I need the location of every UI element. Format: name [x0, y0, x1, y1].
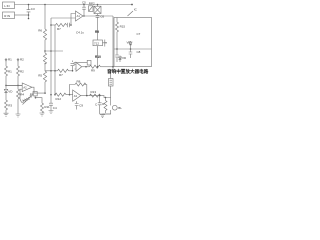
- resistor Rin2: [55, 93, 66, 101]
- svg-text:R4: R4: [20, 93, 24, 97]
- resistor R11: [41, 103, 51, 113]
- svg-text:C3: C3: [31, 7, 35, 11]
- diode VD1: [4, 85, 13, 98]
- wire vertical bus x55: [54, 25, 56, 95]
- svg-text:R3: R3: [8, 104, 12, 108]
- svg-text:R13: R13: [91, 90, 97, 94]
- cap C4b: [71, 61, 75, 71]
- wire jack down: [110, 86, 112, 105]
- svg-text:R2: R2: [20, 69, 24, 73]
- node IC2 in b: [54, 94, 56, 96]
- wire top rail: [15, 4, 133, 6]
- node rail x51: [50, 50, 52, 52]
- svg-text:VD: VD: [122, 56, 127, 60]
- svg-text:R1: R1: [8, 58, 12, 62]
- wire vertical bus x51: [50, 18, 52, 95]
- diode in box: [127, 40, 133, 49]
- wire to U4: [66, 94, 73, 96]
- ground G5: [100, 114, 105, 118]
- box rail y49: [114, 48, 152, 50]
- rail y85.4: [6, 84, 22, 86]
- node U4 out: [86, 95, 88, 97]
- op-amp U4: [73, 90, 81, 101]
- arrow in2: [17, 58, 24, 62]
- node fb x51: [50, 24, 52, 26]
- svg-text:A2: A2: [23, 85, 27, 89]
- capacitor C6: [96, 14, 105, 19]
- cap under U4: [75, 101, 84, 109]
- svg-text:R9: R9: [95, 30, 99, 34]
- node out x106.8: [105, 97, 107, 99]
- resistor R7a: [56, 23, 67, 31]
- svg-text:R2: R2: [20, 58, 24, 62]
- svg-text:R15: R15: [120, 25, 126, 29]
- op-amp U1: [76, 11, 84, 21]
- cap C4c to ground: [49, 95, 57, 111]
- wire U1 output: [83, 15, 113, 17]
- node at C3 top: [28, 4, 30, 6]
- cap box C: [87, 60, 91, 65]
- svg-text:A1: A1: [77, 14, 81, 18]
- svg-text:RP2: RP2: [89, 1, 95, 5]
- node rail end: [131, 4, 133, 6]
- node right: [112, 66, 114, 68]
- wire to node C: [44, 82, 46, 93]
- box below U3: [33, 92, 42, 104]
- wire K1 down: [97, 46, 99, 67]
- pot RP: [20, 92, 34, 104]
- node U1 out cap: [83, 15, 84, 16]
- svg-text:A3: A3: [74, 94, 78, 98]
- resistor R5: [38, 51, 46, 78]
- wire R6 to node B: [44, 42, 46, 51]
- switch box S1: [94, 5, 101, 14]
- resistor R14: [102, 98, 107, 114]
- svg-text:C6: C6: [100, 15, 104, 19]
- svg-text:R7: R7: [59, 73, 63, 77]
- wire R5 down: [44, 63, 46, 71]
- svg-text:C8: C8: [137, 50, 141, 54]
- wire U4 out: [81, 96, 111, 98]
- wire mid rail y51: [45, 50, 63, 52]
- cap in box mid: [129, 49, 133, 58]
- svg-text:VD: VD: [8, 90, 13, 94]
- op-amp U3: [22, 83, 32, 92]
- resistor R21 in box: [116, 18, 126, 35]
- ground G2: [16, 114, 21, 117]
- arrow in1: [5, 58, 12, 62]
- wire U3 inputs: [6, 85, 22, 96]
- cap C10: [95, 96, 102, 111]
- node box rail2: [130, 48, 132, 50]
- resistor R1: [5, 61, 13, 78]
- node U2 out: [85, 66, 87, 68]
- node rail x51b: [50, 70, 52, 72]
- trimmer RP2 box: [89, 1, 95, 11]
- node at J2 wire: [28, 14, 30, 16]
- node col join: [97, 66, 99, 68]
- jack box: [109, 67, 114, 86]
- capacitor C5: [82, 1, 86, 16]
- svg-text:C: C: [95, 102, 98, 106]
- resistor R8 fb: [70, 79, 87, 96]
- node C: [44, 92, 46, 94]
- node fb2: [69, 94, 71, 96]
- svg-text:C5: C5: [82, 1, 86, 5]
- diode in box lower right: [119, 56, 127, 63]
- svg-text:IC: IC: [134, 8, 138, 12]
- node rail x18: [17, 85, 19, 87]
- node fb x71: [70, 24, 72, 26]
- node B: [44, 50, 46, 52]
- svg-text:R6: R6: [38, 29, 42, 33]
- input box J1: [3, 2, 15, 9]
- capacitor C3: [27, 5, 35, 19]
- svg-text:L IN: L IN: [4, 4, 9, 8]
- svg-text:R1: R1: [8, 69, 12, 73]
- bottom rail right: [100, 111, 111, 114]
- wire from J2: [15, 14, 29, 16]
- svg-text:C4: C4: [53, 106, 57, 110]
- wire U1 out down: [112, 16, 114, 67]
- node rail x6: [5, 85, 7, 87]
- op-amp U2: [76, 62, 82, 71]
- node IC2 in: [50, 94, 52, 96]
- svg-text:712: 712: [94, 41, 99, 45]
- big box amplifier module: [114, 18, 152, 67]
- resistor R9: [90, 65, 101, 72]
- svg-text:C4 1u: C4 1u: [76, 31, 84, 35]
- svg-text:音响中置放大器电路: 音响中置放大器电路: [107, 68, 149, 75]
- resistor R3: [5, 98, 13, 112]
- relay box K1: [93, 40, 103, 46]
- wire R1 to rail: [5, 78, 7, 85]
- node x72: [72, 70, 74, 72]
- svg-text:R5: R5: [38, 74, 42, 78]
- wire U2 upper fb: [74, 63, 87, 65]
- ground G1: [4, 112, 9, 116]
- rail y70.8: [45, 70, 58, 72]
- wire R4 down: [17, 101, 19, 114]
- node out x99.7: [99, 95, 101, 97]
- wire fb to upper input: [71, 14, 76, 26]
- svg-text:R10: R10: [95, 55, 101, 59]
- op-amp A feedback wire: [51, 24, 56, 26]
- wire to right node: [101, 66, 114, 68]
- resistor R5b: [43, 71, 46, 82]
- wire op-amp A lower input: [51, 17, 76, 19]
- capacitor C4a: [67, 23, 72, 27]
- connector bracket: [103, 40, 107, 47]
- svg-text:R IN: R IN: [4, 14, 10, 18]
- wire U3 output: [32, 87, 45, 93]
- svg-text:BL: BL: [118, 106, 122, 110]
- input box J2: [3, 12, 15, 19]
- svg-text:R12: R12: [56, 97, 62, 101]
- leader line: [128, 8, 138, 17]
- svg-text:R8: R8: [77, 79, 81, 83]
- resistor R7b: [58, 69, 69, 77]
- wire col down: [97, 19, 99, 40]
- ground G3: [40, 113, 45, 116]
- node box rail1: [116, 48, 118, 50]
- node top rail col: [97, 4, 99, 6]
- svg-text:C9: C9: [79, 104, 83, 108]
- resistor R4: [17, 85, 25, 101]
- wire U2 output: [82, 66, 90, 68]
- speaker BL: [103, 105, 123, 114]
- node at C3 bottom: [28, 18, 30, 20]
- wire R2 to rail: [17, 78, 19, 85]
- svg-text:C7: C7: [137, 32, 141, 36]
- wire U2 inputs: [74, 65, 76, 70]
- cap in box lower: [115, 49, 123, 62]
- svg-text:R9: R9: [91, 68, 95, 72]
- wire to cap C4b: [69, 70, 73, 72]
- svg-text:R7: R7: [57, 27, 61, 31]
- node top rail A: [44, 4, 46, 6]
- wire in box: [116, 34, 118, 49]
- resistor R6: [38, 5, 46, 43]
- svg-text:R11: R11: [44, 105, 50, 109]
- resistor R2: [17, 61, 25, 78]
- resistor Rout: [90, 90, 101, 97]
- node rail x55b: [54, 70, 56, 72]
- ground G4: [49, 111, 54, 114]
